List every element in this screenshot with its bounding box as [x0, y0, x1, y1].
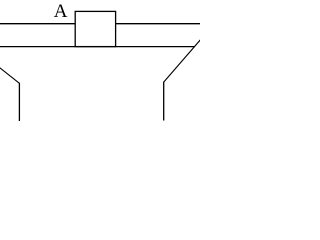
right leg slanted segment	[164, 40, 201, 82]
block A body	[75, 11, 115, 46]
svg-text:A: A	[54, 1, 68, 22]
table top lower edge line	[0, 46, 195, 48]
left leg vertical segment	[18, 83, 20, 121]
table top upper edge line	[0, 23, 200, 25]
right leg vertical segment	[163, 82, 165, 121]
left leg slanted segment	[0, 67, 19, 83]
